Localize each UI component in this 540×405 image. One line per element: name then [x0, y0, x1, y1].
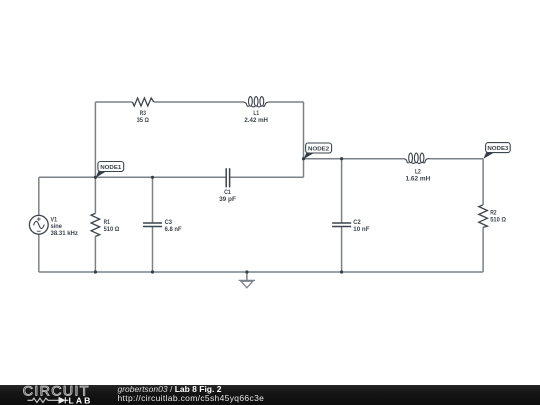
junction C3-top — [151, 176, 154, 179]
label L2 value — [406, 168, 431, 182]
resistor R2 — [479, 205, 488, 228]
svg-text:NODE2: NODE2 — [308, 146, 329, 152]
label L1 value — [244, 110, 268, 124]
label R2 value — [490, 210, 506, 224]
node NODE2 flag — [304, 143, 332, 159]
svg-text:L1: L1 — [253, 110, 259, 117]
wire C3 bottom lead — [152, 227, 154, 272]
footer bar — [0, 385, 540, 405]
capacitor C1 — [226, 168, 229, 187]
wire R1 bottom lead — [94, 236, 96, 272]
wire top loop right vertical — [303, 102, 305, 177]
wire R2 top lead — [482, 159, 484, 205]
label R1 value — [104, 219, 120, 233]
wire bottom rail — [39, 271, 483, 273]
wire middle rail right — [230, 176, 304, 178]
wire NODE1 up to top branch — [94, 102, 96, 177]
svg-text:C1: C1 — [224, 189, 231, 196]
svg-text:L2: L2 — [415, 168, 421, 175]
wire top rail middle — [154, 101, 244, 103]
svg-text:10 nF: 10 nF — [353, 226, 369, 233]
junction R1-bottom — [94, 270, 97, 273]
junction C3-bottom — [151, 270, 154, 273]
wire node2 rail right — [430, 158, 483, 160]
wire ground stub — [246, 272, 248, 280]
svg-text:NODE3: NODE3 — [487, 146, 508, 152]
wire C2 bottom lead — [341, 227, 343, 272]
svg-text:6.8 nF: 6.8 nF — [165, 226, 182, 233]
junction NODE1 — [94, 176, 97, 179]
label C2 value — [353, 219, 369, 233]
svg-text:35 Ω: 35 Ω — [137, 117, 149, 124]
resistor R1 — [91, 213, 100, 236]
label V1 value — [51, 216, 79, 236]
node NODE3 flag — [483, 143, 510, 159]
junction C2-bottom — [340, 270, 343, 273]
svg-text:2.42 mH: 2.42 mH — [244, 117, 268, 124]
capacitor C2 — [332, 223, 351, 227]
credit text — [118, 385, 265, 403]
junction ground — [245, 270, 248, 273]
label R3 value — [137, 110, 149, 124]
wire top rail right — [269, 101, 304, 103]
wire top rail left — [95, 101, 132, 103]
wire C2 top lead — [341, 159, 343, 223]
node NODE1 flag — [96, 162, 124, 178]
svg-text:R2: R2 — [490, 210, 497, 217]
svg-text:510 Ω: 510 Ω — [490, 217, 506, 224]
wire middle rail left — [39, 176, 226, 178]
junction NODE2 — [302, 157, 305, 160]
wire V1 top lead — [38, 177, 40, 216]
svg-text:R3: R3 — [140, 110, 146, 117]
svg-text:LAB: LAB — [69, 396, 93, 405]
wire R2 bottom lead — [482, 227, 484, 272]
svg-text:C2: C2 — [353, 219, 361, 226]
svg-text:1.62 mH: 1.62 mH — [406, 175, 431, 182]
inductor L1 — [244, 97, 269, 107]
wire node2 rail left — [304, 158, 404, 160]
label C3 value — [165, 219, 182, 233]
inductor L2 — [404, 153, 431, 163]
svg-text:39 pF: 39 pF — [219, 196, 236, 203]
svg-text:C3: C3 — [165, 219, 173, 226]
voltage source V1 — [29, 215, 48, 234]
wire C3 top lead — [152, 177, 154, 223]
resistor R3 — [132, 98, 153, 106]
ground — [239, 280, 255, 287]
logo CircuitLab — [0, 0, 110, 405]
wire R1 top lead — [94, 177, 96, 213]
junction C2-top — [340, 157, 343, 160]
capacitor C3 — [143, 223, 162, 227]
wire V1 bottom lead — [38, 234, 40, 272]
label C1 value — [219, 189, 236, 203]
